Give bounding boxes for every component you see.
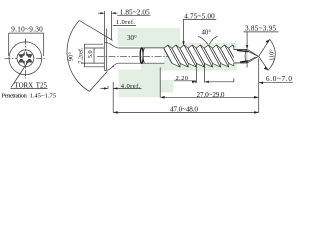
leader TORX [11,63,28,88]
ext line right [43,33,45,56]
head bottom edge [104,69,106,71]
40 deg V left arc [198,36,208,44]
dim 4.0ref dim line left [101,87,109,89]
27.0~29.0 dim line [160,96,258,98]
7.2ref ext top [84,43,103,45]
cone flank top [107,43,119,48]
svg-text:3.85~3.95: 3.85~3.95 [245,25,276,33]
svg-text:Penetration: Penetration [2,92,28,99]
flute line to tip bottom [248,57,255,61]
torx recess outer circle [17,50,34,67]
svg-text:47.0~48.0: 47.0~48.0 [170,105,198,113]
shank bottom line [118,62,143,64]
drill point bottom edge [247,56,258,63]
dim 3.85~3.95 underline [244,31,279,33]
4.0ref tick up [107,86,109,89]
centerline vertical [24,39,26,79]
5.0 ext bottom [81,62,104,64]
head face line 1 [103,43,105,71]
centerline horizontal [5,57,47,59]
dim 1.85~2.05 ext right [111,11,113,40]
head outer circle [9,42,42,75]
cylinder section fill [144,48,164,63]
cone flank bottom [107,63,119,70]
40 deg V right arc [209,36,217,44]
drill point fill [247,49,258,63]
drill point base arc [245,49,247,63]
svg-text:1.45~1.75: 1.45~1.75 [30,92,57,99]
pilot section bottom line [234,62,247,64]
head top edge [104,42,106,44]
fan bottom arrowhead [264,67,268,71]
110 deg callout upper line [259,39,270,56]
27.0~29.0 ext left [159,68,161,98]
thread silhouette [164,45,247,67]
svg-text:4.0ref.: 4.0ref. [121,83,141,90]
svg-text:110°: 110° [268,49,275,61]
ext line left [8,33,10,56]
screw body white fill [104,43,143,71]
7.2ref ext bottom [84,66,114,68]
dim line 9.10~9.30 [9,32,44,34]
svg-text:6.0~7.0: 6.0~7.0 [266,75,292,83]
torx star [18,51,32,66]
4.0ref dim line right [113,87,141,89]
shank top line [118,47,143,49]
drill point top edge [247,49,258,56]
6.0~7.0 tip ext [258,59,260,113]
dim 3.85~3.95 leader [246,32,248,48]
47.0~48.0 dim line [113,111,259,113]
dim 4.75~5.00 underline [183,19,216,21]
svg-text:2.20: 2.20 [176,75,189,82]
green patch B (behind threads) [141,43,237,71]
svg-text:27.0~29.0: 27.0~29.0 [197,91,225,99]
2.20 ext line A [195,64,197,83]
4.0ref arrows [104,87,108,89]
flute line to tip [249,52,258,56]
svg-text:30°: 30° [127,34,137,42]
thread runout ellipse [140,48,143,63]
5.0 ext top [85,47,104,49]
2.20 arrows [192,81,196,83]
main centerline [97,55,253,57]
47.0~48.0 ext left [112,82,114,112]
2.20 ext line B [204,64,206,83]
pilot section top line [234,48,247,50]
90 deg fan upper edge [79,21,112,41]
thread helix lines [164,45,234,67]
6.0~7.0 dim line [259,82,293,84]
dim 1.85~2.05 ext left [103,11,105,43]
cylinder bottom line [144,62,165,64]
green patch C (behind 4.0ref / 2.20) [119,70,161,98]
cylinder end arc [143,48,145,63]
5.0 dim line [93,48,95,63]
green patch A (around 30 deg label) [118,28,180,46]
flute edge thick top [237,50,249,51]
110 deg arc [268,39,275,70]
svg-text:1.85~2.05: 1.85~2.05 [120,9,150,17]
7.2ref dim line [84,44,86,67]
90 deg fan lower edge [89,71,107,91]
cylinder top line [144,47,165,49]
svg-text:9.10~9.30: 9.10~9.30 [11,26,43,34]
dim 1.85~2.05 dim line [98,12,118,14]
2.20 tail line [205,78,234,82]
svg-text:7.2ref.: 7.2ref. [77,47,84,64]
90 deg fan arc [67,21,89,92]
27.0~29.0 ext right (shared 6.0~7.0) [246,62,248,68]
dim 4.75~5.00 leader [183,20,185,45]
svg-text:40°: 40° [202,29,212,36]
svg-text:90°: 90° [68,52,75,62]
head face line 2 [106,29,108,71]
110 deg callout lower line [259,57,268,71]
fan top arrowhead [266,39,270,43]
svg-text:5.0: 5.0 [87,50,94,58]
flute edge thick bottom [240,61,248,62]
2.20 underline [174,81,196,83]
